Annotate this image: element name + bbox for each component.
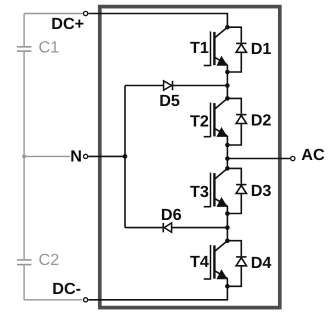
transistor T2 body bar — [213, 103, 215, 136]
terminal N — [84, 154, 88, 158]
wire D2 branch bottom — [227, 124, 241, 146]
wire rail T3 emitter to T4 collector — [226, 214, 228, 241]
node D6 anode junction on rail — [225, 225, 230, 230]
svg-text:D3: D3 — [251, 182, 272, 200]
terminal AC — [291, 156, 295, 160]
transistor T2 emitter arrow — [217, 127, 228, 137]
wire D1 branch bottom — [227, 52, 241, 72]
node clamp bus / N junction — [123, 154, 128, 159]
svg-text:D6: D6 — [161, 206, 182, 224]
wire AC output — [227, 158, 290, 160]
transistor T4 emitter arrow — [217, 269, 228, 279]
transistor T4 emitter lead — [215, 271, 227, 278]
transistor T4 gate lead — [204, 278, 211, 280]
wire T1 emitter to node — [226, 65, 228, 72]
diode D4 — [236, 256, 246, 258]
wire rail T1 emitter to T2 collector — [226, 72, 228, 98]
capacitor C2 — [17, 259, 31, 261]
transistor T3 emitter lead — [215, 199, 227, 206]
transistor T4 gate bar — [210, 245, 212, 280]
module outline box — [100, 7, 280, 308]
transistor T2 gate lead — [204, 136, 211, 138]
wire N to clamp bus — [88, 155, 125, 157]
wire D6 anode to T3/T4 midpoint — [172, 227, 228, 229]
svg-text:DC-: DC- — [52, 280, 81, 298]
capacitor C1 — [17, 46, 31, 48]
svg-text:T3: T3 — [190, 183, 209, 201]
transistor T4 (IGBT) collector lead — [215, 241, 227, 251]
transistor T1 body bar — [213, 32, 215, 65]
diode D6 (clamp, pointing left) — [162, 223, 164, 232]
wire rail T2 emitter to T3 collector (AC node) — [226, 145, 228, 168]
svg-text:N: N — [70, 148, 82, 166]
wire T2 emitter to node — [226, 136, 228, 145]
svg-text:T2: T2 — [190, 112, 209, 130]
node T2 emitter / D2 anode junction — [225, 143, 230, 148]
wire clamp bus vertical — [124, 86, 126, 228]
transistor T3 gate lead — [204, 206, 211, 208]
wire gray stub to DC+ terminal — [24, 13, 83, 15]
svg-text:AC: AC — [301, 146, 325, 164]
svg-text:DC+: DC+ — [51, 15, 84, 33]
node D5 cathode junction on rail — [225, 83, 230, 88]
wire DC-link left rail (gray) top section — [23, 14, 25, 47]
wire D6 cathode from clamp bus — [125, 227, 163, 229]
transistor T2 gate bar — [210, 103, 212, 138]
svg-text:D5: D5 — [159, 92, 180, 110]
transistor T1 gate lead — [204, 65, 211, 67]
node gray junction at N on rail — [22, 155, 26, 159]
svg-text:D4: D4 — [251, 254, 272, 272]
svg-text:T1: T1 — [190, 39, 209, 57]
transistor T3 (IGBT) collector lead — [215, 168, 227, 178]
wire D5 anode from clamp bus — [125, 85, 164, 87]
transistor T3 emitter arrow — [217, 197, 228, 207]
wire D4 branch bottom — [227, 266, 241, 287]
wire gray stub to N terminal — [24, 155, 70, 157]
transistor T1 gate bar — [210, 31, 212, 66]
node T4 collector / D4 cathode junction — [225, 238, 230, 243]
diode D1 — [236, 42, 246, 44]
wire T4 emitter rail to DC- — [88, 286, 227, 300]
node AC junction on rail — [225, 156, 230, 161]
wire T4 emitter to node — [226, 278, 228, 286]
svg-text:C1: C1 — [39, 38, 60, 56]
wire DC+ to T1 collector — [88, 14, 227, 28]
wire D3 branch bottom — [227, 194, 241, 214]
wire T3 emitter to node — [226, 206, 228, 214]
wire D1 branch top — [227, 27, 241, 42]
diode D3 — [236, 184, 246, 186]
transistor T2 (IGBT) collector lead — [215, 98, 227, 108]
svg-text:C2: C2 — [39, 251, 60, 269]
terminal DC- — [84, 298, 88, 302]
wire D4 branch top — [227, 241, 241, 256]
node T1 emitter / D1 anode junction — [225, 70, 230, 75]
transistor T1 (IGBT) collector lead — [215, 27, 227, 37]
svg-text:D1: D1 — [251, 40, 272, 58]
transistor T2 emitter lead — [215, 129, 227, 136]
node T2 collector / D2 cathode junction — [225, 96, 230, 101]
svg-text:T4: T4 — [190, 253, 209, 271]
diode D2 — [236, 114, 246, 116]
wire D3 branch top — [227, 168, 241, 183]
transistor T3 body bar — [213, 173, 215, 206]
node T3 emitter / D3 anode junction — [225, 211, 230, 216]
wire D5 cathode to T1/T2 midpoint — [173, 85, 228, 87]
wire gray stub to DC- terminal — [24, 299, 82, 301]
node T4 emitter / D4 anode junction — [225, 284, 230, 289]
node T3 collector / D3 cathode junction — [225, 166, 230, 171]
diode D5 (clamp, pointing right) — [164, 81, 172, 90]
transistor T1 emitter lead — [215, 58, 227, 65]
wire left rail bottom section — [23, 265, 25, 299]
node T1 collector / D1 cathode junction — [225, 25, 230, 30]
terminal DC+ — [84, 11, 88, 15]
transistor T1 emitter arrow — [217, 56, 228, 66]
transistor T4 body bar — [213, 245, 215, 278]
wire left rail middle section — [23, 52, 25, 259]
wire D2 branch top — [227, 98, 241, 113]
transistor T3 gate bar — [210, 173, 212, 208]
svg-text:D2: D2 — [251, 112, 272, 130]
